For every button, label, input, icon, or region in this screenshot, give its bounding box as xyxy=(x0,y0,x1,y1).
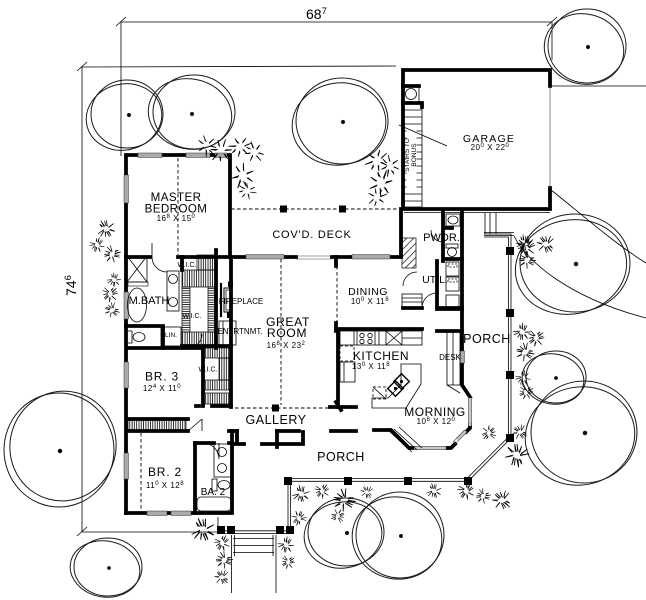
svg-text:200 X 220: 200 X 220 xyxy=(471,143,510,152)
svg-text:BR. 2: BR. 2 xyxy=(148,465,182,479)
tree bottom-right xyxy=(516,377,644,496)
kitchen top cabinets xyxy=(340,331,422,345)
pwdr fixtures xyxy=(446,214,460,257)
svg-text:LIN.: LIN. xyxy=(165,332,177,339)
svg-text:ENTRTNMT.: ENTRTNMT. xyxy=(217,327,262,336)
util door arc xyxy=(422,293,437,308)
dimension line left 74-6 xyxy=(77,62,87,536)
vanity M.BATH xyxy=(167,271,179,311)
BR2 entry door arc xyxy=(203,443,219,459)
tree right-middle xyxy=(506,209,635,324)
svg-text:PWDR.: PWDR. xyxy=(423,232,460,244)
fireplace xyxy=(221,282,233,319)
svg-text:110 X 128: 110 X 128 xyxy=(146,481,184,490)
kitchen south wall xyxy=(330,405,356,409)
ceiling dashed lines xyxy=(177,158,179,255)
powder/util east wall xyxy=(403,211,462,308)
BR3 walls xyxy=(127,348,231,406)
svg-text:124 X 110: 124 X 110 xyxy=(143,384,181,393)
svg-text:168 X 150: 168 X 150 xyxy=(157,214,196,223)
shrubs at front steps xyxy=(191,517,216,542)
tree bottom-center 2 xyxy=(344,489,449,588)
front steps xyxy=(232,535,277,593)
pwdr door arc xyxy=(431,230,443,242)
kitchen west wall xyxy=(336,331,340,407)
svg-text:PORCH: PORCH xyxy=(317,450,365,464)
desk east wall xyxy=(374,308,470,448)
garage door (east) xyxy=(549,86,551,188)
entertainment niche xyxy=(219,321,236,345)
svg-text:GALLERY: GALLERY xyxy=(246,413,307,427)
shrubs along east porch rail xyxy=(515,233,535,253)
util washer dryer xyxy=(446,262,459,307)
svg-text:COV'D. DECK: COV'D. DECK xyxy=(272,229,351,241)
svg-text:BONUS: BONUS xyxy=(411,143,418,167)
tree top-middle xyxy=(286,75,393,172)
tree bottom-left small xyxy=(66,535,145,600)
tree right small xyxy=(518,349,588,409)
BR3 door arc xyxy=(188,334,202,348)
tree bottom-left big xyxy=(0,379,128,513)
morning-to-porch steps xyxy=(389,427,422,452)
desk xyxy=(447,331,460,393)
pwdr walls xyxy=(443,211,462,261)
svg-text:100 X 118: 100 X 118 xyxy=(351,297,389,306)
dimension line top 68-7 xyxy=(116,17,557,156)
svg-text:FIREPLACE: FIREPLACE xyxy=(219,297,263,306)
dining east wall xyxy=(399,209,403,257)
water heater closet xyxy=(404,86,419,103)
flower cluster near master bedroom xyxy=(199,136,216,158)
property line south xyxy=(82,531,218,533)
property line north-east of garage xyxy=(550,85,646,87)
entry recess xyxy=(234,431,303,447)
kitchen island xyxy=(372,364,421,408)
BR3 closet door leaf xyxy=(188,419,202,431)
hall cabinets xyxy=(402,294,422,307)
shrub column along west wall xyxy=(98,220,115,236)
dining west wall corners xyxy=(334,257,338,331)
dining north wall xyxy=(332,255,400,259)
svg-text:M.BATH: M.BATH xyxy=(129,295,170,307)
flower cluster near deck east xyxy=(362,148,391,175)
BA2 fixtures xyxy=(197,444,231,511)
west wing left wall xyxy=(124,257,128,513)
great room west wall xyxy=(229,257,233,407)
tree top-left 2 xyxy=(142,71,239,157)
BR2 walls xyxy=(126,443,232,513)
BR3/BR2 closet wall xyxy=(127,419,188,431)
shower M.BATH xyxy=(127,256,148,286)
svg-text:W.I.C.: W.I.C. xyxy=(177,262,196,269)
master suite interior: bath south wall xyxy=(126,326,163,348)
pantry dashed + fridge xyxy=(340,346,354,361)
svg-text:UTIL.: UTIL. xyxy=(422,274,448,286)
hall door arc xyxy=(403,272,417,286)
gallery south wall xyxy=(229,429,356,433)
svg-text:STAIRS TO: STAIRS TO xyxy=(404,138,411,172)
shrubs along south porch rail xyxy=(291,484,311,504)
gallery dashed line xyxy=(229,407,341,409)
WIC1 hatch xyxy=(197,255,216,270)
tub M.BATH xyxy=(128,288,147,322)
driveway arcs xyxy=(551,190,646,263)
porch posts xyxy=(506,247,514,255)
BR2/BR3 closet hatch xyxy=(128,420,186,430)
svg-text:KITCHEN: KITCHEN xyxy=(353,349,409,363)
svg-text:W.I.C.: W.I.C. xyxy=(198,367,217,374)
tree top-right xyxy=(537,5,632,92)
morning bay windows thin xyxy=(468,398,471,426)
svg-text:W.I.C.: W.I.C. xyxy=(182,313,201,320)
LIN closet xyxy=(161,327,181,346)
garage walls xyxy=(403,70,550,209)
kitchen north cabinet wall (shared w/ dining) xyxy=(338,329,462,331)
util west wall xyxy=(435,261,439,309)
tree top-left 1 xyxy=(79,76,169,158)
toilet M.BATH xyxy=(127,331,145,343)
svg-text:DESK: DESK xyxy=(439,353,461,362)
pantry hall hatch xyxy=(402,238,416,268)
svg-text:168 X 232: 168 X 232 xyxy=(267,341,306,350)
BR3 WIC hatch xyxy=(204,348,231,358)
master south wall xyxy=(126,255,230,259)
svg-text:108 X 120: 108 X 120 xyxy=(417,417,456,426)
svg-text:BA. 2: BA. 2 xyxy=(201,487,226,498)
svg-text:130 X 118: 130 X 118 xyxy=(352,362,390,371)
svg-text:ROOM: ROOM xyxy=(267,326,307,340)
deck door lines xyxy=(296,258,332,260)
WIC2 hatch ring xyxy=(182,270,216,287)
tree bottom-center 1 xyxy=(299,496,387,575)
property line north xyxy=(82,66,396,67)
master bedroom walls xyxy=(126,155,230,257)
great room north wall xyxy=(230,255,296,259)
garage side steps xyxy=(404,213,550,236)
svg-text:BR. 3: BR. 3 xyxy=(145,370,179,384)
util south wall xyxy=(440,307,462,311)
master hall door arc xyxy=(152,243,167,272)
WIC / hall walls xyxy=(182,250,231,348)
svg-text:PORCH: PORCH xyxy=(463,332,511,346)
